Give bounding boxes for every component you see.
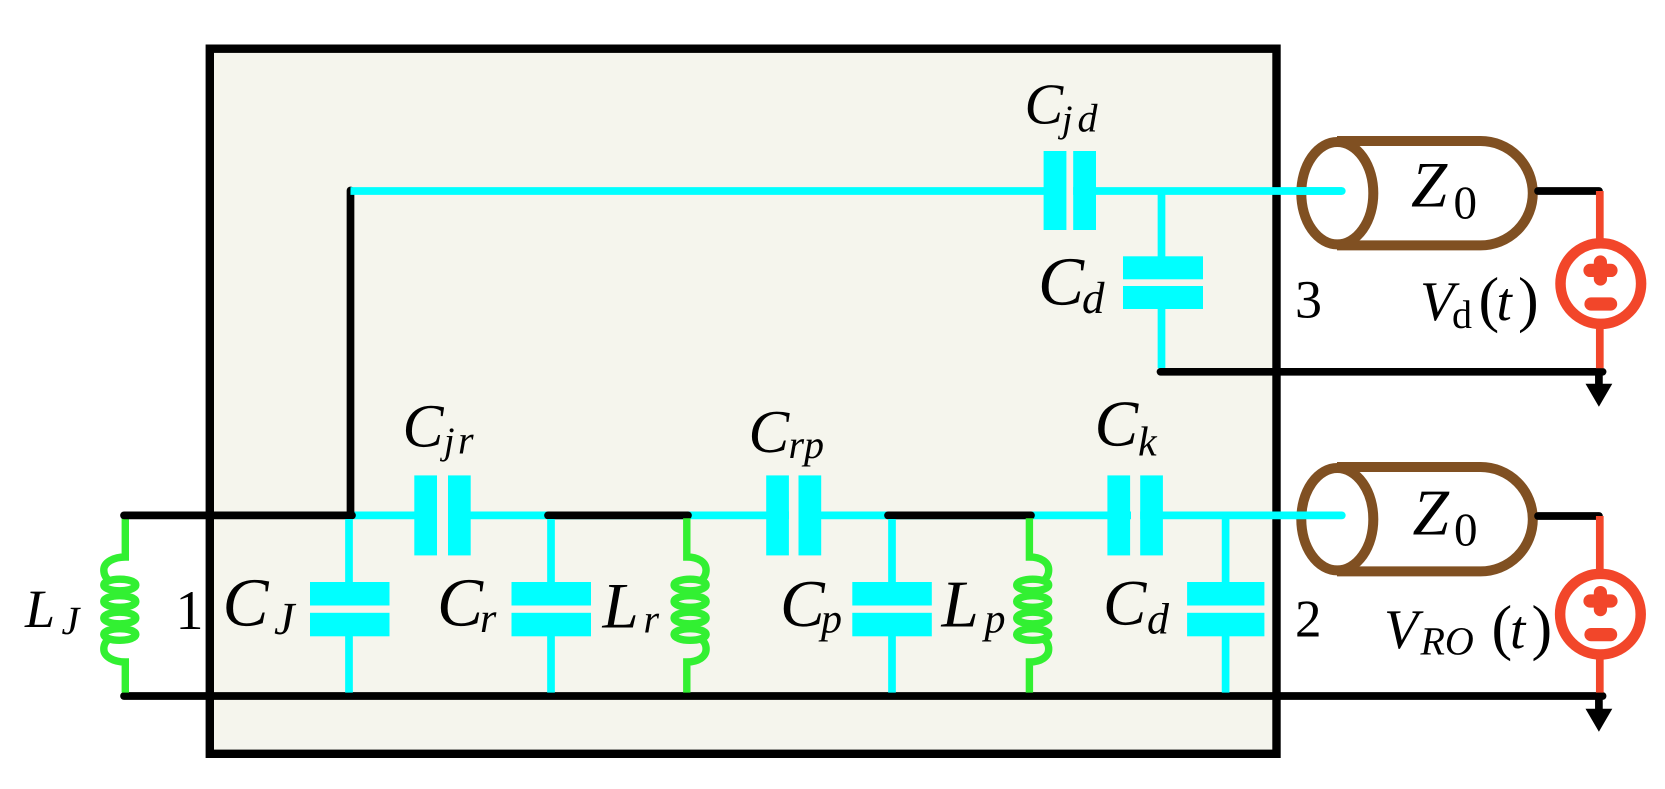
svg-text:C: C [437, 565, 484, 641]
wire: black return rail of drive port to source V_d [1161, 368, 1603, 376]
svg-text:0: 0 [1454, 178, 1478, 230]
wire: top drive line (cyan) left segment [351, 187, 1067, 195]
svg-text:p: p [818, 597, 842, 643]
label C_jd [1025, 71, 1099, 140]
wire: red lead down to source V_RO [1596, 516, 1604, 576]
svg-text:Z: Z [1411, 150, 1448, 222]
svg-text:): ) [1532, 594, 1553, 662]
source V_RO plus sign [1590, 593, 1611, 610]
wire: bottom circuit bottom rail (black ground rail) [124, 692, 1603, 700]
device boundary box [210, 49, 1277, 754]
svg-text:d: d [1082, 273, 1105, 323]
label C_d (bottom) [1103, 567, 1170, 643]
node 1 label [176, 580, 204, 642]
svg-text:): ) [1518, 266, 1539, 334]
label C_rp [749, 399, 825, 467]
source V_RO circle [1560, 574, 1641, 655]
transmission line Z0 (bottom) body [1301, 467, 1532, 571]
capacitor C_jd plates [1044, 151, 1096, 230]
svg-text:C: C [223, 565, 270, 641]
capacitor C_k plates [1107, 475, 1162, 555]
capacitor C_jr plates [414, 475, 470, 555]
svg-text:p: p [801, 422, 824, 467]
transmission line Z0 (top) body [1301, 141, 1532, 245]
svg-text:r: r [458, 417, 474, 462]
label L_p [941, 568, 1006, 643]
svg-text:C: C [1103, 567, 1147, 639]
label C_k [1095, 389, 1159, 466]
wire: red lead from source V_d to ground rail [1596, 322, 1604, 368]
wire: black stub from Z0 (top) to source [1538, 187, 1599, 195]
svg-text:0: 0 [1454, 505, 1478, 557]
wire: vertical black link from node 1 rail up to drive line [347, 191, 355, 517]
svg-text:V: V [1384, 599, 1424, 661]
ground arrow of drive return [1586, 372, 1613, 407]
svg-text:L: L [602, 570, 639, 642]
svg-text:t: t [1497, 271, 1514, 332]
capacitor C_J (shunt) with leads [310, 519, 390, 693]
wire: cyan rail segment node1 to C_jr [348, 512, 437, 520]
capacitor C_d (top, shunt) plates [1123, 256, 1203, 309]
inductor L_r (hooks right) [674, 518, 706, 692]
svg-text:C: C [749, 399, 791, 466]
svg-text:t: t [1510, 599, 1527, 660]
wire: bottom circuit top rail (black, from LJ to internal node) [124, 512, 352, 520]
label Z0 (bottom) [1413, 478, 1478, 557]
svg-text:RO: RO [1420, 619, 1474, 664]
label C_J [223, 565, 298, 644]
svg-text:1: 1 [176, 580, 204, 642]
cyan stub into Z0 (top) [1296, 187, 1342, 195]
svg-text:C: C [403, 392, 445, 460]
svg-text:r: r [789, 422, 805, 467]
capacitor C_p (shunt) with leads [852, 519, 932, 693]
inductor L_p (hooks right) [1017, 518, 1049, 692]
wire: red lead from source V_RO to ground rail [1596, 653, 1604, 693]
capacitor C_r (shunt) with leads [512, 519, 592, 693]
svg-text:J: J [62, 598, 82, 643]
label C_r [437, 565, 497, 643]
svg-text:d: d [1452, 292, 1472, 337]
wire: cyan drop from drive line to C_d (top) [1158, 191, 1166, 368]
svg-text:d: d [1078, 96, 1099, 141]
svg-text:J: J [274, 593, 297, 644]
capacitor C_rp plates [766, 475, 821, 555]
svg-text:p: p [982, 597, 1006, 643]
inductor L_J (hooks left) [104, 518, 136, 692]
label V_d(t) [1420, 266, 1539, 337]
svg-text:3: 3 [1295, 269, 1322, 329]
cyan stub into Z0 (bottom) [1296, 512, 1342, 520]
label Z0 (top) [1411, 150, 1477, 230]
wire: cyan rail segment C_k to port 2 [1140, 512, 1342, 520]
wire: cyan rail segment C_jr to C_rp [448, 512, 789, 520]
label C_d (top) [1038, 243, 1105, 323]
capacitor C_d (bottom, shunt) with leads [1187, 515, 1264, 692]
node 2 label [1295, 590, 1322, 648]
svg-text:C: C [1025, 71, 1065, 136]
source V_d minus sign [1591, 297, 1611, 310]
svg-text:L: L [24, 579, 55, 639]
wire: black stub from Z0 (bottom) to source [1538, 512, 1599, 520]
wire: black resonator bar C_p to L_p [888, 512, 1031, 520]
label C_jr [403, 392, 475, 462]
svg-text:Z: Z [1413, 478, 1450, 550]
svg-text:r: r [480, 596, 497, 642]
svg-text:C: C [780, 567, 826, 641]
label V_RO(t) [1384, 594, 1552, 664]
svg-text:d: d [1147, 595, 1170, 644]
source V_d circle [1561, 243, 1642, 324]
wire: black resonator bar C_r to L_r [548, 512, 688, 520]
source V_RO minus sign [1591, 628, 1611, 641]
svg-text:k: k [1138, 420, 1158, 466]
label L_J [24, 579, 82, 643]
wire: top drive line (cyan) right segment to port 3 [1073, 187, 1342, 195]
label C_p [780, 567, 842, 643]
svg-text:C: C [1038, 243, 1085, 319]
node 3 label [1295, 269, 1322, 329]
label L_r [602, 570, 660, 642]
svg-text:r: r [644, 597, 660, 642]
svg-text:L: L [941, 568, 979, 642]
source V_d plus sign [1590, 262, 1611, 279]
svg-text:2: 2 [1295, 590, 1322, 648]
ground arrow of readout return [1586, 696, 1613, 732]
svg-text:C: C [1095, 389, 1140, 461]
wire: cyan rail segment C_rp to C_k [799, 512, 1132, 520]
wire: red lead down to source V_d [1596, 191, 1604, 245]
